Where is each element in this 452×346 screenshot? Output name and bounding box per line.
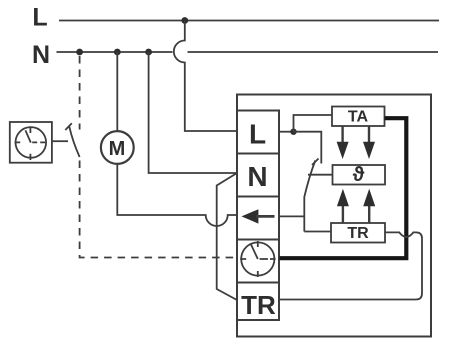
terminal L <box>237 111 279 154</box>
wire N bus to motor <box>116 52 118 131</box>
wire L tap to terminal L with hop over N bus <box>174 21 237 132</box>
svg-text:L: L <box>32 4 47 32</box>
node L bus junction <box>181 17 188 24</box>
node N junction (terminal N drop) <box>145 49 152 56</box>
arrow TR to theta (right) <box>363 189 375 223</box>
box TR (receiver unit) <box>331 223 385 243</box>
svg-text:TR: TR <box>347 225 369 242</box>
terminal TR <box>237 283 279 321</box>
wire dashed timer control (vertical) <box>79 56 81 130</box>
timer switch contact seat <box>65 123 72 130</box>
wire N bus to terminal N <box>149 52 237 173</box>
arrow TA to theta (left) <box>337 126 349 159</box>
controller box <box>237 95 431 337</box>
wire motor to arrow terminal with hop under bridge <box>117 164 237 226</box>
wire bridge terminal N to terminal TR <box>217 173 237 300</box>
wire theta box to blade <box>308 174 332 176</box>
wire node to switch fixed contact <box>294 132 322 164</box>
node N junction (timer drop) <box>76 49 83 56</box>
wire N bus (broken at hop) <box>57 51 439 53</box>
wire TR unit to terminal TR with hop over thick wire <box>280 232 423 299</box>
motor M1 <box>101 131 134 164</box>
wire dashed timer control (down and to clock terminal) <box>80 161 236 258</box>
wire thick TA to clock terminal <box>280 118 407 258</box>
svg-text:TR: TR <box>241 290 276 320</box>
wire arrow terminal to blade <box>279 215 304 217</box>
node internal junction <box>290 129 296 135</box>
arrow TR to theta (left) <box>337 189 349 223</box>
wire timer to switch blade <box>52 140 68 142</box>
wire node to TA box <box>294 115 333 132</box>
relay contact seat <box>312 159 319 166</box>
svg-text:TA: TA <box>348 109 369 126</box>
terminal clock <box>237 240 279 283</box>
wire L bus <box>59 20 439 22</box>
relay switch blade <box>304 161 315 232</box>
terminal N <box>237 154 279 197</box>
timer switch blade <box>69 127 79 158</box>
box TA (remote sensor) <box>332 107 385 127</box>
svg-text:L: L <box>249 119 266 150</box>
box theta (thermostat) <box>333 164 386 186</box>
timer clock unit <box>10 122 52 163</box>
arrow TA to theta (right) <box>363 126 375 159</box>
svg-text:N: N <box>32 41 50 69</box>
wire terminal L to internal node <box>279 131 294 133</box>
terminal arrow (switched output) <box>237 197 279 240</box>
wire blade bottom to TR unit <box>304 231 331 233</box>
svg-text:N: N <box>247 161 267 192</box>
svg-text:ϑ: ϑ <box>353 164 365 186</box>
svg-text:M: M <box>109 138 126 160</box>
node N junction (motor drop) <box>114 49 121 56</box>
